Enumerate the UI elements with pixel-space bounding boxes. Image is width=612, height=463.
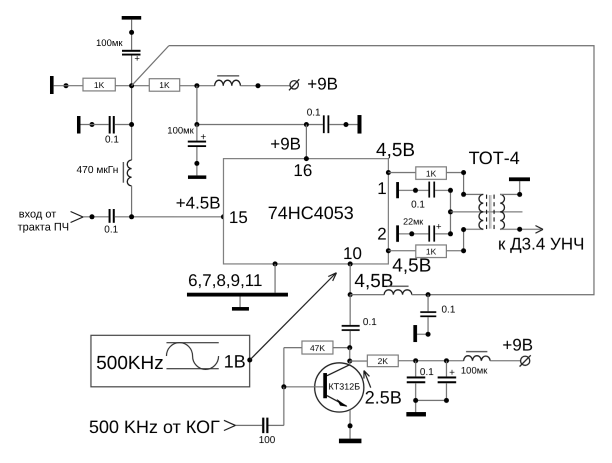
resistor R1 1K: [83, 78, 115, 91]
resistor R3 1K: [416, 167, 447, 180]
node (center tap junction): [448, 209, 453, 214]
node: [409, 231, 414, 236]
node: [348, 292, 353, 297]
node: [448, 188, 453, 193]
wire: [398, 360, 463, 362]
wire: [435, 233, 450, 235]
node: [448, 231, 453, 236]
svg-text:0.1: 0.1: [105, 134, 119, 145]
capacitor C12 100: [262, 418, 264, 434]
resistor R4 1K: [416, 245, 447, 258]
wire: [388, 172, 415, 174]
wire: [446, 230, 463, 251]
svg-text:100мк: 100мк: [167, 126, 194, 137]
node: [413, 188, 418, 193]
wire: [131, 20, 133, 50]
node: [413, 358, 418, 363]
svg-text:+: +: [436, 222, 442, 233]
wire (base node down to coupling cap): [268, 387, 283, 426]
wire: [83, 216, 109, 218]
terminal bar (pin1 cap): [396, 182, 399, 198]
svg-text:470 мкГн: 470 мкГн: [76, 165, 118, 176]
svg-text:100: 100: [259, 435, 276, 446]
wire (pin 10 down to 4,5V row): [349, 264, 351, 295]
node: [413, 398, 418, 403]
capacitor C1 100мк: [122, 50, 141, 52]
capacitor C11 100мк (supply filter): [445, 361, 447, 377]
capacitor C9 0.1 (below feedback node): [427, 295, 429, 312]
svg-text:22мк: 22мк: [403, 216, 423, 226]
svg-text:4,5В: 4,5В: [376, 140, 415, 161]
resistor R5 47K: [284, 347, 302, 349]
terminal bar (left of C2): [77, 116, 81, 134]
wire (IC ground lead): [274, 264, 276, 293]
svg-text:6,7,8,9,11: 6,7,8,9,11: [188, 271, 262, 290]
capacitor C6 0.1: [428, 182, 430, 198]
svg-text:10: 10: [343, 244, 362, 263]
svg-text:1K: 1K: [426, 168, 437, 178]
svg-text:0.1: 0.1: [104, 224, 118, 235]
ground (emitter bar): [339, 439, 362, 444]
wire: [350, 294, 384, 296]
svg-text:ТОТ-4: ТОТ-4: [469, 148, 520, 168]
wire: [240, 85, 290, 87]
transistor Q1 KT312B: [315, 363, 364, 412]
output arrow to УНЧ: [535, 226, 543, 234]
svg-text:+9В: +9В: [270, 134, 301, 153]
terminal +9V (circle with slash): [290, 81, 298, 89]
oscillator source box 500KHz: [91, 335, 250, 387]
ground (bus bar under IC): [187, 293, 288, 297]
terminal +9V (circle with slash): [521, 356, 530, 365]
node: [461, 170, 466, 175]
wire: [412, 294, 428, 296]
wire: [115, 216, 224, 218]
wire: [446, 173, 463, 195]
wire (diagonal feedback to top rail): [132, 46, 169, 86]
node: [444, 398, 449, 403]
node: [517, 192, 522, 197]
svg-text:500KHz: 500KHz: [96, 353, 164, 374]
svg-text:2K: 2K: [378, 356, 389, 366]
terminal bar (pin2 cap): [396, 225, 399, 242]
svg-text:0.1: 0.1: [420, 367, 434, 378]
svg-text:0.1: 0.1: [307, 107, 321, 118]
node: [517, 227, 522, 232]
wire: [349, 348, 351, 361]
capacitor C3 0.1: [109, 209, 111, 223]
svg-text:1K: 1K: [159, 80, 170, 90]
sine symbol: [166, 343, 218, 369]
capacitor C10 0.1 (supply filter): [415, 361, 417, 377]
wire (primary bottom): [464, 228, 484, 230]
input arrow: [71, 212, 83, 223]
svg-text:0.1: 0.1: [441, 304, 455, 315]
svg-text:4,5В: 4,5В: [392, 256, 431, 277]
node: [461, 192, 466, 197]
svg-text:500 KHz от КОГ: 500 KHz от КОГ: [89, 417, 220, 437]
wire: [235, 424, 262, 426]
capacitor C8 0.1 (below pin-10 node): [349, 295, 351, 325]
svg-text:1В: 1В: [224, 352, 246, 372]
node (box output): [247, 358, 252, 363]
ground (bar left of C9): [413, 325, 417, 342]
wire (feedback loop: top edge, right edge, bottom edge): [169, 46, 594, 295]
node: [444, 358, 449, 363]
wire (center tap line): [450, 211, 522, 213]
node: [255, 83, 260, 88]
node: [194, 161, 199, 166]
svg-text:100мк: 100мк: [96, 38, 123, 49]
capacitor C2 0.1: [109, 116, 111, 134]
node: [426, 292, 431, 297]
wire: [329, 124, 357, 126]
transformer T1 primary winding: [479, 194, 483, 229]
node: [426, 332, 431, 337]
svg-text:2: 2: [377, 224, 386, 243]
wire (emitter): [349, 410, 351, 439]
wire: [399, 189, 428, 191]
resistor R6 2K: [367, 355, 398, 367]
svg-text:0.1: 0.1: [363, 317, 377, 328]
node: [348, 423, 353, 428]
ground (bar under C5): [188, 175, 206, 179]
node: [63, 83, 68, 88]
ground (top bar above C1): [122, 16, 142, 20]
wire (base): [284, 386, 323, 388]
node (junction dot on C1 top lead): [129, 30, 134, 35]
wire: [80, 124, 108, 126]
wire: [388, 250, 415, 252]
svg-text:1: 1: [377, 179, 386, 198]
wire: [350, 360, 368, 362]
capacitor C7 22мк: [428, 225, 430, 241]
inductor L1: [215, 80, 241, 86]
node: [304, 122, 309, 127]
wire (primary top): [464, 193, 484, 195]
transformer T1 core: [486, 195, 488, 230]
wire (secondary top): [500, 181, 520, 194]
pins 6,7,8,9,11: [273, 261, 278, 266]
wire (+9V rail from R2 junction): [197, 86, 323, 125]
svg-text:74HC4053: 74HC4053: [268, 203, 354, 223]
node (junction with L2): [129, 214, 134, 219]
node: [89, 214, 94, 219]
wire: [435, 190, 450, 234]
wire (47K to base node): [283, 348, 285, 387]
svg-text:+: +: [134, 53, 140, 64]
pin 2: [386, 248, 391, 253]
node (main input junction): [129, 83, 134, 88]
node (collector node): [347, 359, 352, 364]
node: [194, 83, 199, 88]
node: [347, 345, 352, 350]
node (base node): [281, 384, 286, 389]
svg-text:КТ312Б: КТ312Б: [328, 382, 360, 392]
wire: [115, 124, 132, 126]
inductor L3: [384, 290, 412, 295]
wire: [54, 85, 83, 87]
label 2.5B with arrow: [364, 371, 371, 388]
node: [461, 227, 466, 232]
wire (pin 16 feed): [305, 125, 307, 159]
resistor R2 1K: [149, 79, 179, 92]
node (pin 15): [221, 214, 226, 219]
wire: [131, 186, 133, 217]
op-amp U1 74HC4053 (IC box): [223, 159, 388, 264]
transformer T1 secondary winding: [500, 194, 504, 229]
node: [89, 122, 94, 127]
wire (secondary bottom, output): [500, 228, 541, 230]
node: [343, 122, 348, 127]
wire: [115, 85, 149, 87]
node: [461, 248, 466, 253]
svg-text:15: 15: [229, 208, 248, 227]
wire: [416, 400, 447, 412]
svg-text:47K: 47K: [310, 343, 325, 353]
terminal bar (left of R1): [50, 76, 54, 94]
svg-text:+9В: +9В: [307, 74, 338, 93]
input arrow: [224, 420, 236, 430]
svg-text:4,5В: 4,5В: [354, 271, 393, 292]
svg-text:тракта ПЧ: тракта ПЧ: [18, 221, 70, 233]
node: [129, 122, 134, 127]
wire: [131, 56, 133, 161]
wire: [399, 233, 428, 235]
wire: [333, 347, 350, 349]
svg-text:вход от: вход от: [19, 209, 57, 221]
svg-text:1K: 1K: [94, 80, 105, 90]
pin 10: [348, 261, 353, 266]
svg-text:+4.5В: +4.5В: [176, 194, 221, 213]
svg-text:к Д3.4 УНЧ: к Д3.4 УНЧ: [498, 235, 584, 254]
wire: [180, 85, 215, 87]
ground (bar above secondary): [509, 177, 530, 181]
pin 1: [386, 170, 391, 175]
svg-text:0.1: 0.1: [411, 200, 425, 211]
pin 16: [304, 156, 309, 161]
arrow (oscillator injected to pin 10): [250, 274, 335, 360]
node: [194, 122, 199, 127]
wire: [490, 360, 520, 362]
inductor L4: [464, 356, 491, 361]
svg-text:16: 16: [293, 161, 312, 180]
terminal bar (right of C4): [357, 115, 361, 134]
svg-text:100мк: 100мк: [461, 366, 488, 377]
svg-text:+9В: +9В: [502, 335, 533, 354]
svg-text:2.5В: 2.5В: [365, 388, 402, 408]
ground (bar under supply filter): [406, 412, 426, 416]
